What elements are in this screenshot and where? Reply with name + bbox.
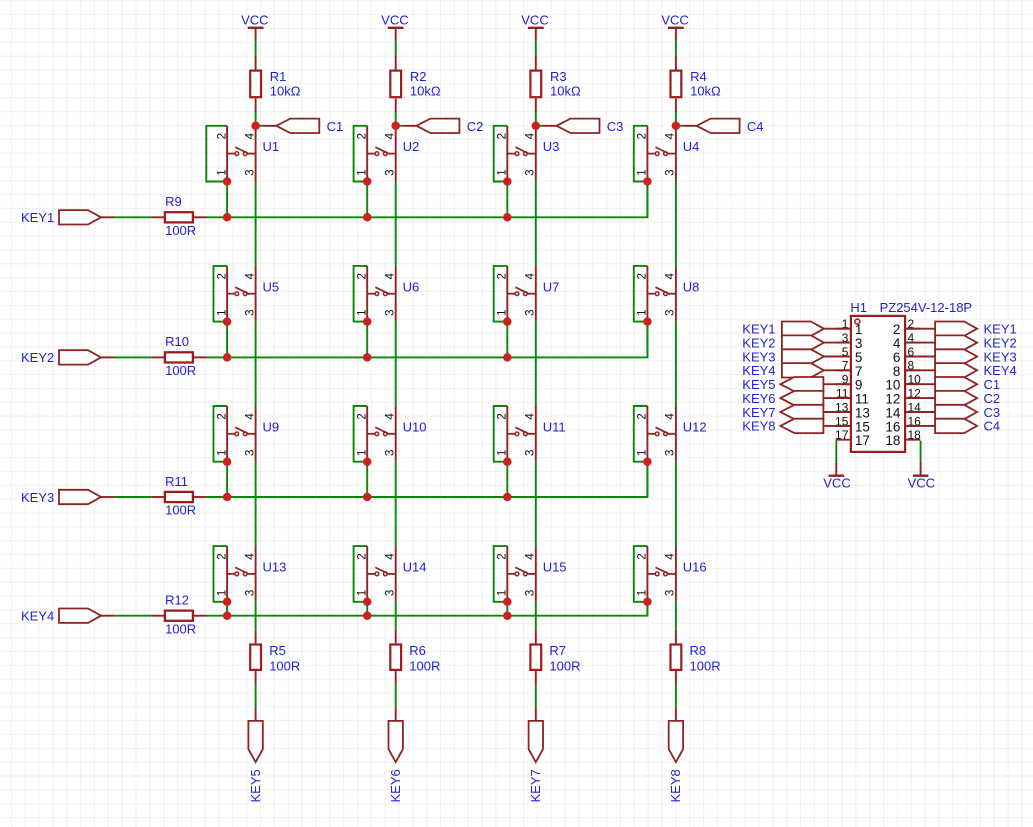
svg-text:13: 13 bbox=[855, 406, 870, 421]
junction bbox=[223, 611, 232, 620]
svg-text:KEY2: KEY2 bbox=[984, 335, 1017, 350]
power flag VCC column 1 bbox=[241, 13, 268, 42]
svg-text:4: 4 bbox=[525, 413, 537, 420]
net flag KEY2 bbox=[782, 335, 850, 349]
svg-text:2: 2 bbox=[637, 413, 649, 419]
pin 15 bbox=[835, 414, 870, 434]
switch U6 bbox=[367, 266, 396, 322]
switch U13 bbox=[227, 546, 256, 602]
wire bbox=[255, 41, 257, 55]
pin 9 bbox=[836, 373, 863, 393]
wire bbox=[115, 356, 152, 358]
svg-text:KEY6: KEY6 bbox=[742, 391, 775, 406]
wire bbox=[395, 112, 397, 126]
svg-text:U11: U11 bbox=[543, 419, 566, 434]
svg-text:3: 3 bbox=[244, 309, 256, 315]
junction bbox=[363, 611, 372, 620]
svg-text:C2: C2 bbox=[467, 119, 484, 134]
power flag VCC column 3 bbox=[521, 13, 548, 42]
svg-text:KEY5: KEY5 bbox=[248, 769, 263, 802]
switch U8 bbox=[647, 266, 676, 322]
svg-text:3: 3 bbox=[385, 590, 397, 596]
junction bbox=[223, 598, 232, 607]
pin 1 bbox=[836, 317, 863, 337]
svg-text:3: 3 bbox=[385, 450, 397, 456]
svg-text:U6: U6 bbox=[403, 279, 420, 294]
junction bbox=[503, 598, 512, 607]
wire bbox=[646, 322, 648, 358]
svg-text:2: 2 bbox=[497, 413, 509, 419]
svg-text:5: 5 bbox=[855, 350, 863, 365]
wire bbox=[115, 615, 152, 617]
wire row KEY1 bbox=[207, 182, 648, 218]
svg-text:1: 1 bbox=[855, 322, 863, 337]
svg-text:KEY4: KEY4 bbox=[21, 609, 54, 624]
svg-text:4: 4 bbox=[525, 132, 537, 139]
svg-text:KEY8: KEY8 bbox=[668, 769, 683, 802]
svg-text:4: 4 bbox=[893, 336, 901, 351]
wire bbox=[506, 602, 508, 616]
junction bbox=[363, 317, 372, 326]
wire pin2 to pin1 of U12 bbox=[634, 406, 648, 462]
svg-text:1: 1 bbox=[356, 309, 368, 315]
wire bbox=[226, 322, 228, 358]
resistor R9 bbox=[151, 212, 206, 222]
junction bbox=[503, 611, 512, 620]
svg-text:4: 4 bbox=[665, 553, 677, 560]
net flag KEY8 bbox=[669, 707, 683, 762]
svg-text:KEY8: KEY8 bbox=[742, 419, 775, 434]
wire pin2 to pin1 of U1 bbox=[206, 126, 227, 182]
wire bbox=[675, 41, 677, 55]
svg-text:3: 3 bbox=[244, 450, 256, 456]
pin 11 bbox=[836, 387, 869, 407]
junction bbox=[223, 353, 232, 362]
power flag VCC column 2 bbox=[381, 13, 408, 42]
svg-text:2: 2 bbox=[216, 413, 228, 419]
svg-text:4: 4 bbox=[385, 273, 397, 280]
svg-text:R6: R6 bbox=[409, 643, 426, 658]
junction bbox=[223, 177, 232, 186]
svg-text:2: 2 bbox=[893, 322, 901, 337]
svg-text:VCC: VCC bbox=[381, 13, 408, 28]
svg-text:1: 1 bbox=[356, 590, 368, 596]
net flag C2 bbox=[403, 119, 460, 133]
svg-text:11: 11 bbox=[855, 392, 869, 407]
svg-text:KEY6: KEY6 bbox=[388, 769, 403, 802]
wire bbox=[675, 182, 677, 266]
pin 2 bbox=[893, 317, 920, 337]
wire bbox=[535, 322, 537, 406]
svg-text:R4: R4 bbox=[690, 69, 707, 84]
svg-text:KEY1: KEY1 bbox=[21, 210, 54, 225]
pin 18 bbox=[885, 428, 921, 448]
junction bbox=[503, 317, 512, 326]
junction bbox=[391, 122, 400, 131]
junction bbox=[223, 457, 232, 466]
svg-text:1: 1 bbox=[637, 590, 649, 596]
net flag KEY5 bbox=[780, 377, 849, 391]
svg-text:16: 16 bbox=[885, 419, 900, 434]
wire bbox=[395, 602, 397, 630]
junction bbox=[223, 317, 232, 326]
pin 14 bbox=[885, 400, 921, 420]
svg-text:2: 2 bbox=[216, 553, 228, 559]
svg-text:U13: U13 bbox=[263, 560, 287, 575]
wire bbox=[506, 462, 508, 497]
junction bbox=[643, 457, 652, 466]
svg-text:KEY3: KEY3 bbox=[742, 349, 775, 364]
svg-text:KEY3: KEY3 bbox=[984, 349, 1017, 364]
svg-text:2: 2 bbox=[497, 553, 509, 559]
wire bbox=[646, 182, 648, 218]
wire bbox=[115, 496, 152, 498]
svg-text:4: 4 bbox=[385, 413, 397, 420]
svg-text:4: 4 bbox=[665, 413, 677, 420]
net flag KEY2 bbox=[59, 350, 115, 364]
resistor R3 bbox=[530, 56, 541, 112]
pin 8 bbox=[893, 359, 920, 379]
svg-text:U3: U3 bbox=[543, 139, 560, 154]
svg-text:C3: C3 bbox=[607, 119, 624, 134]
wire bbox=[535, 182, 537, 266]
switch U7 bbox=[507, 266, 536, 322]
wire row KEY4 bbox=[207, 602, 648, 616]
junction bbox=[363, 353, 372, 362]
svg-text:VCC: VCC bbox=[241, 13, 268, 28]
svg-text:R3: R3 bbox=[550, 69, 567, 84]
svg-text:2: 2 bbox=[216, 133, 228, 139]
svg-text:U7: U7 bbox=[543, 279, 560, 294]
junction bbox=[672, 122, 681, 131]
wire bbox=[675, 322, 677, 406]
wire bbox=[226, 462, 228, 497]
svg-text:1: 1 bbox=[216, 450, 228, 456]
wire bbox=[255, 322, 257, 406]
svg-text:4: 4 bbox=[525, 553, 537, 560]
switch U1 bbox=[227, 126, 256, 182]
svg-text:2: 2 bbox=[637, 553, 649, 559]
pin 10 bbox=[885, 373, 921, 393]
switch U11 bbox=[507, 406, 536, 462]
junction bbox=[363, 213, 372, 222]
svg-text:10kΩ: 10kΩ bbox=[410, 83, 441, 98]
svg-text:18: 18 bbox=[885, 433, 900, 448]
wire bbox=[920, 441, 922, 462]
wire bbox=[366, 322, 368, 358]
svg-text:2: 2 bbox=[356, 133, 368, 139]
wire bbox=[675, 112, 677, 126]
wire bbox=[366, 602, 368, 616]
svg-text:KEY4: KEY4 bbox=[984, 363, 1017, 378]
svg-text:KEY1: KEY1 bbox=[742, 322, 775, 337]
resistor R11 bbox=[151, 492, 206, 502]
svg-text:100R: 100R bbox=[165, 363, 196, 378]
svg-text:100R: 100R bbox=[409, 658, 440, 673]
svg-text:U14: U14 bbox=[403, 560, 427, 575]
wire pin2 to pin1 of U10 bbox=[354, 406, 368, 462]
junction bbox=[363, 177, 372, 186]
resistor R5 bbox=[250, 630, 261, 685]
svg-text:10kΩ: 10kΩ bbox=[270, 83, 301, 98]
resistor R8 bbox=[671, 630, 682, 685]
wire bbox=[395, 182, 397, 266]
svg-text:KEY1: KEY1 bbox=[984, 322, 1017, 337]
wire pin2 to pin1 of U4 bbox=[634, 126, 648, 182]
switch U16 bbox=[647, 546, 676, 602]
net flag C4 right bbox=[906, 419, 977, 433]
net flag KEY3 bbox=[782, 349, 850, 363]
pin 13 bbox=[835, 400, 870, 420]
wire bbox=[256, 125, 263, 127]
switch U12 bbox=[647, 406, 676, 462]
wire bbox=[395, 41, 397, 55]
wire bbox=[675, 685, 677, 707]
svg-text:C1: C1 bbox=[327, 119, 344, 134]
svg-text:1: 1 bbox=[216, 309, 228, 315]
wire row KEY3 bbox=[207, 462, 648, 497]
svg-text:3: 3 bbox=[665, 590, 677, 596]
resistor R4 bbox=[671, 56, 682, 112]
junction bbox=[503, 213, 512, 222]
wire pin2 to pin1 of U3 bbox=[494, 126, 508, 182]
svg-text:VCC: VCC bbox=[823, 475, 850, 490]
wire bbox=[506, 182, 508, 218]
wire row KEY2 bbox=[207, 322, 648, 358]
wire pin2 to pin1 of U7 bbox=[494, 266, 508, 322]
svg-text:3: 3 bbox=[665, 309, 677, 315]
svg-text:KEY3: KEY3 bbox=[21, 490, 54, 505]
wire bbox=[536, 125, 543, 127]
net flag C4 bbox=[683, 119, 740, 133]
switch U14 bbox=[367, 546, 396, 602]
svg-text:2: 2 bbox=[637, 273, 649, 279]
svg-text:1: 1 bbox=[216, 590, 228, 596]
svg-text:2: 2 bbox=[637, 133, 649, 139]
junction bbox=[643, 598, 652, 607]
svg-text:100R: 100R bbox=[165, 223, 196, 238]
power flag VCC column 4 bbox=[661, 13, 688, 42]
net flag KEY4 right bbox=[906, 363, 977, 377]
svg-text:2: 2 bbox=[497, 133, 509, 139]
svg-text:4: 4 bbox=[525, 273, 537, 280]
wire bbox=[226, 602, 228, 616]
junction bbox=[223, 213, 232, 222]
svg-text:R10: R10 bbox=[165, 334, 189, 349]
svg-text:2: 2 bbox=[356, 273, 368, 279]
svg-text:KEY2: KEY2 bbox=[742, 335, 775, 350]
svg-text:3: 3 bbox=[244, 169, 256, 175]
svg-text:U16: U16 bbox=[683, 560, 707, 575]
wire bbox=[675, 602, 677, 630]
svg-text:14: 14 bbox=[885, 406, 901, 421]
svg-text:1: 1 bbox=[637, 450, 649, 456]
svg-text:10: 10 bbox=[885, 378, 900, 393]
svg-text:3: 3 bbox=[385, 309, 397, 315]
svg-text:100R: 100R bbox=[690, 658, 721, 673]
net flag KEY1 bbox=[782, 322, 850, 336]
net flag KEY4 bbox=[782, 363, 850, 377]
net flag C2 right bbox=[906, 391, 977, 405]
net flag KEY6 bbox=[389, 707, 403, 762]
svg-text:KEY7: KEY7 bbox=[742, 405, 775, 420]
net flag KEY3 bbox=[59, 490, 115, 504]
svg-text:KEY5: KEY5 bbox=[742, 377, 775, 392]
svg-text:1: 1 bbox=[497, 590, 509, 596]
svg-text:6: 6 bbox=[893, 350, 901, 365]
switch U5 bbox=[227, 266, 256, 322]
junction bbox=[643, 177, 652, 186]
svg-text:KEY2: KEY2 bbox=[21, 350, 54, 365]
svg-text:9: 9 bbox=[855, 378, 863, 393]
junction bbox=[223, 493, 232, 502]
resistor R12 bbox=[151, 611, 206, 621]
wire bbox=[835, 441, 837, 463]
net flag C3 right bbox=[906, 405, 977, 419]
net flag KEY8 bbox=[780, 419, 849, 433]
connector H1 body bbox=[851, 316, 905, 452]
net flag KEY6 bbox=[780, 391, 849, 405]
resistor R2 bbox=[390, 56, 401, 112]
svg-text:VCC: VCC bbox=[661, 13, 688, 28]
switch U2 bbox=[367, 126, 396, 182]
svg-text:R2: R2 bbox=[410, 69, 427, 84]
pin 17 bbox=[835, 428, 870, 448]
junction bbox=[503, 457, 512, 466]
svg-text:R7: R7 bbox=[549, 643, 566, 658]
wire bbox=[646, 462, 648, 497]
wire bbox=[366, 182, 368, 218]
svg-text:3: 3 bbox=[525, 450, 537, 456]
pin 1 indicator bbox=[855, 319, 860, 324]
resistor R6 bbox=[390, 630, 401, 685]
pin 5 bbox=[836, 345, 863, 365]
wire pin2 to pin1 of U14 bbox=[354, 546, 368, 602]
wire bbox=[115, 216, 152, 218]
resistor R10 bbox=[151, 352, 206, 362]
wire pin2 to pin1 of U11 bbox=[494, 406, 508, 462]
svg-text:4: 4 bbox=[244, 413, 256, 420]
svg-text:8: 8 bbox=[893, 364, 901, 379]
svg-text:3: 3 bbox=[385, 169, 397, 175]
svg-text:PZ254V-12-18P: PZ254V-12-18P bbox=[880, 300, 973, 315]
wire pin2 to pin1 of U6 bbox=[354, 266, 368, 322]
pin 4 bbox=[893, 331, 920, 351]
svg-text:R5: R5 bbox=[269, 643, 286, 658]
junction bbox=[363, 457, 372, 466]
svg-text:U2: U2 bbox=[403, 139, 420, 154]
svg-text:1: 1 bbox=[356, 450, 368, 456]
svg-text:100R: 100R bbox=[269, 658, 300, 673]
wire bbox=[646, 602, 648, 616]
svg-text:4: 4 bbox=[244, 132, 256, 139]
svg-text:17: 17 bbox=[855, 433, 870, 448]
wire bbox=[255, 685, 257, 707]
svg-text:100R: 100R bbox=[549, 658, 580, 673]
svg-text:VCC: VCC bbox=[521, 13, 548, 28]
svg-text:3: 3 bbox=[525, 169, 537, 175]
svg-text:18: 18 bbox=[908, 428, 922, 442]
junction bbox=[503, 493, 512, 502]
svg-text:15: 15 bbox=[855, 419, 870, 434]
svg-text:H1: H1 bbox=[850, 300, 867, 315]
svg-text:U9: U9 bbox=[263, 419, 280, 434]
wire bbox=[255, 112, 257, 126]
svg-text:1: 1 bbox=[497, 169, 509, 175]
svg-text:KEY7: KEY7 bbox=[528, 769, 543, 802]
wire bbox=[395, 322, 397, 406]
switch U3 bbox=[507, 126, 536, 182]
svg-text:U4: U4 bbox=[683, 139, 700, 154]
wire bbox=[535, 41, 537, 55]
svg-text:100R: 100R bbox=[165, 621, 196, 636]
svg-text:R11: R11 bbox=[165, 474, 188, 489]
svg-text:1: 1 bbox=[497, 450, 509, 456]
switch U10 bbox=[367, 406, 396, 462]
net flag C1 right bbox=[906, 377, 977, 391]
resistor R7 bbox=[530, 630, 541, 685]
power flag VCC left bbox=[823, 463, 850, 491]
svg-text:C1: C1 bbox=[984, 377, 1001, 392]
svg-text:100R: 100R bbox=[165, 503, 196, 518]
wire pin2 to pin1 of U9 bbox=[214, 406, 228, 462]
wire pin2 to pin1 of U8 bbox=[634, 266, 648, 322]
resistor R1 bbox=[250, 56, 261, 112]
wire bbox=[226, 182, 228, 218]
wire pin2 to pin1 of U5 bbox=[214, 266, 228, 322]
wire bbox=[535, 602, 537, 630]
svg-text:U15: U15 bbox=[543, 560, 567, 575]
svg-text:KEY4: KEY4 bbox=[742, 363, 775, 378]
switch U15 bbox=[507, 546, 536, 602]
svg-text:3: 3 bbox=[855, 336, 863, 351]
switch U4 bbox=[647, 126, 676, 182]
svg-text:1: 1 bbox=[637, 169, 649, 175]
net flag KEY7 bbox=[780, 405, 849, 419]
wire bbox=[255, 602, 257, 630]
svg-text:10kΩ: 10kΩ bbox=[690, 83, 721, 98]
svg-text:U8: U8 bbox=[683, 279, 700, 294]
svg-text:4: 4 bbox=[665, 273, 677, 280]
wire bbox=[506, 322, 508, 358]
svg-text:3: 3 bbox=[244, 590, 256, 596]
svg-text:U10: U10 bbox=[403, 419, 427, 434]
net flag C3 bbox=[543, 119, 600, 133]
wire pin2 to pin1 of U16 bbox=[634, 546, 648, 602]
svg-text:4: 4 bbox=[385, 553, 397, 560]
pin 7 bbox=[836, 359, 863, 379]
net flag C1 bbox=[263, 119, 320, 133]
svg-text:17: 17 bbox=[835, 428, 849, 442]
svg-text:2: 2 bbox=[497, 273, 509, 279]
junction bbox=[503, 177, 512, 186]
svg-text:U5: U5 bbox=[263, 279, 280, 294]
wire pin2 to pin1 of U2 bbox=[354, 126, 368, 182]
pin 3 bbox=[836, 331, 863, 351]
svg-text:3: 3 bbox=[525, 309, 537, 315]
svg-text:R8: R8 bbox=[690, 643, 707, 658]
net flag KEY7 bbox=[529, 707, 543, 762]
net flag KEY1 bbox=[59, 210, 115, 224]
svg-text:U1: U1 bbox=[263, 139, 280, 154]
svg-text:2: 2 bbox=[356, 553, 368, 559]
junction bbox=[643, 317, 652, 326]
svg-text:4: 4 bbox=[244, 273, 256, 280]
pin 12 bbox=[885, 387, 921, 407]
wire bbox=[675, 462, 677, 546]
svg-text:1: 1 bbox=[637, 309, 649, 315]
svg-text:VCC: VCC bbox=[908, 475, 935, 490]
